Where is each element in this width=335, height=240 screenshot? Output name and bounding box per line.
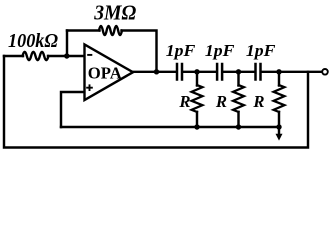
- node R2 bottom: [236, 124, 241, 129]
- wire input left segment: [4, 55, 23, 57]
- resistor R3 leads: [278, 72, 280, 127]
- resistor R2 body: [233, 85, 244, 112]
- op-amp minus sign: [87, 54, 92, 56]
- resistor R2 leads: [237, 72, 239, 127]
- wire op-amp output to cap C1: [132, 71, 176, 73]
- node R3 top: [276, 69, 281, 74]
- node op-amp output / feedback: [154, 69, 159, 74]
- svg-text:3MΩ: 3MΩ: [93, 1, 136, 25]
- op-amp U1 triangle: [85, 45, 134, 101]
- node junction after 100k: [64, 53, 69, 58]
- svg-text:1pF: 1pF: [166, 41, 196, 60]
- capacitor C2 plates: [216, 64, 219, 80]
- svg-text:100kΩ: 100kΩ: [8, 31, 58, 52]
- resistor 100k body: [23, 52, 49, 60]
- wire outer loop: left vertical, bottom rail, right vertical: [4, 56, 308, 148]
- resistor R3 body: [274, 85, 285, 112]
- wire feedback top right + right vertical: [122, 31, 157, 72]
- ground arrow shaft: [278, 127, 280, 136]
- wire op-amp plus input down to rail: [61, 92, 85, 127]
- svg-text:R: R: [178, 92, 190, 111]
- wire feedback left vertical: [66, 31, 68, 57]
- wire input to op-amp minus: [48, 55, 85, 57]
- wire C2 to C3: [223, 71, 254, 73]
- node R3 bottom / ground: [276, 124, 281, 129]
- wire C1 to C2: [183, 71, 216, 73]
- wire feedback top left: [67, 29, 100, 31]
- capacitor C3 plates: [254, 64, 257, 80]
- wire C3 to output terminal: [262, 71, 323, 73]
- wire common rail: [61, 126, 279, 128]
- svg-text:1pF: 1pF: [205, 41, 235, 60]
- svg-text:R: R: [252, 92, 264, 111]
- node R2 top: [236, 69, 241, 74]
- op-amp plus sign: [86, 84, 93, 91]
- node R1 top: [194, 69, 199, 74]
- ground arrow head: [276, 134, 283, 141]
- node R1 bottom: [194, 124, 199, 129]
- resistor R1 body: [192, 85, 203, 112]
- capacitor C1 plates: [176, 64, 179, 80]
- resistor 3M body: [99, 26, 122, 35]
- output terminal: [322, 69, 328, 75]
- svg-text:R: R: [215, 92, 227, 111]
- svg-text:1pF: 1pF: [246, 41, 276, 60]
- resistor R1 leads: [196, 72, 198, 127]
- svg-text:OPA: OPA: [88, 63, 122, 82]
